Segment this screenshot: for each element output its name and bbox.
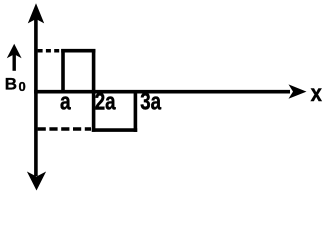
y-axis bottom arrowhead xyxy=(27,172,46,191)
svg-text:2a: 2a xyxy=(95,88,117,115)
svg-text:x: x xyxy=(311,80,322,107)
x-axis arrowhead xyxy=(289,84,307,98)
pulse middle edge at x=2a xyxy=(92,49,96,132)
pulse left edge at x=a xyxy=(61,49,65,93)
pulse right edge at x=3a xyxy=(134,90,138,132)
x-axis shaft xyxy=(34,90,290,94)
pulse top edge at +B0 xyxy=(61,49,95,53)
dashed level line -B0 xyxy=(38,127,91,131)
B0 vector arrow shaft xyxy=(12,54,15,71)
dashed level line +B0 xyxy=(38,49,62,53)
y-axis top arrowhead xyxy=(28,3,44,23)
B0 vector arrowhead xyxy=(7,44,22,58)
pulse bottom edge at -B0 xyxy=(92,128,137,132)
svg-text:3a: 3a xyxy=(140,88,162,115)
y-axis shaft xyxy=(34,14,38,176)
svg-text:a: a xyxy=(60,87,71,115)
